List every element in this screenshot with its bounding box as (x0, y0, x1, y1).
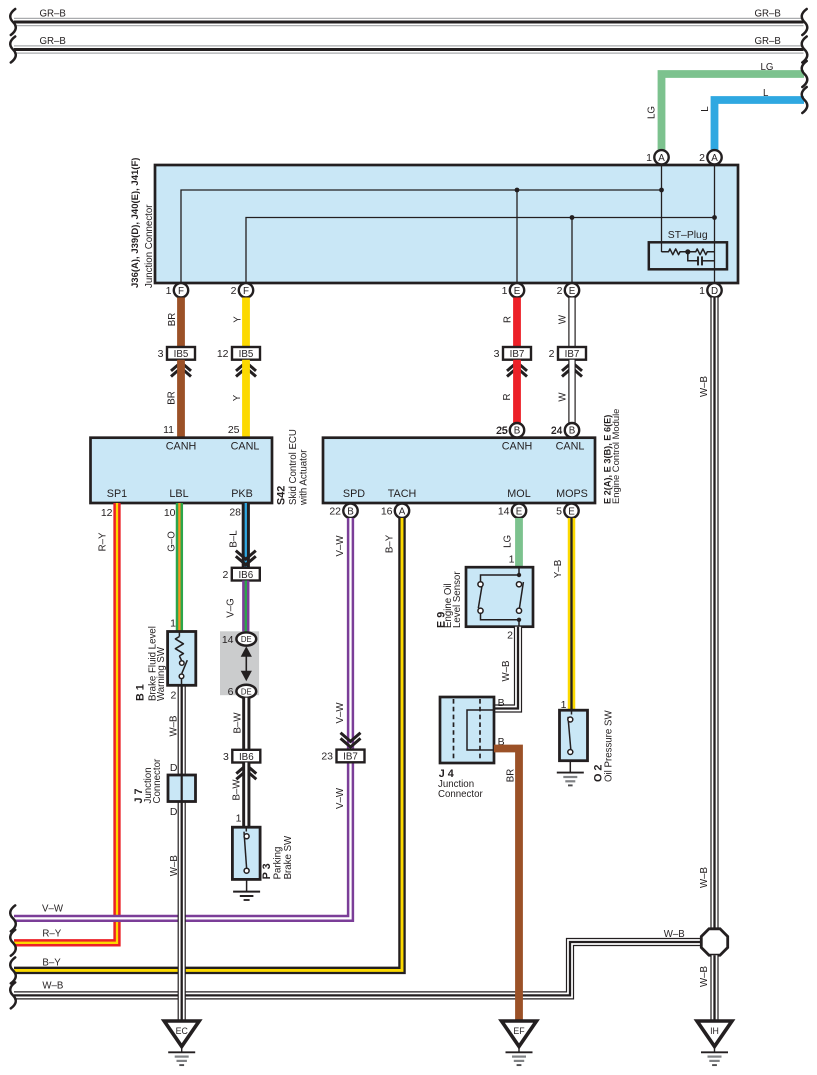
internal wire 2A down to 1D (714, 165, 716, 290)
wire V-G IB6 to DE (225, 581, 246, 633)
svg-text:3: 3 (158, 348, 164, 360)
svg-text:L: L (700, 106, 711, 112)
svg-text:1: 1 (646, 152, 652, 164)
svg-text:Y–B: Y–B (553, 560, 564, 578)
internal wire from 1F to 1A (181, 190, 662, 283)
svg-text:EC: EC (176, 1026, 189, 1036)
svg-text:Oil Pressure SW: Oil Pressure SW (604, 710, 615, 782)
break symbol GR-B lower left (10, 37, 16, 63)
wire B-W DE to IB6 (232, 698, 246, 750)
engine oil level sensor E9 box (466, 567, 533, 627)
ground IH (697, 1021, 732, 1065)
svg-text:2: 2 (170, 690, 176, 702)
P3 name label (261, 835, 294, 879)
svg-text:GR–B: GR–B (40, 36, 66, 47)
break symbol R-Y left (10, 930, 16, 956)
wire W lower segment (551, 360, 572, 437)
svg-text:W: W (558, 314, 569, 324)
J7 name label (133, 758, 163, 803)
switch O2 (568, 710, 573, 754)
ground EC (164, 1021, 199, 1065)
pin 1A (646, 150, 669, 164)
wire W-B right column upper (699, 298, 715, 930)
svg-text:IH: IH (710, 1026, 719, 1036)
J4 pin B upper (498, 697, 505, 709)
svg-text:14: 14 (498, 506, 510, 518)
svg-text:25: 25 (228, 424, 240, 436)
svg-text:F: F (243, 286, 249, 297)
svg-text:with Actuator: with Actuator (299, 449, 310, 506)
break symbol LG right (802, 61, 808, 87)
wire W-B E9 to J4 (494, 627, 518, 709)
svg-text:W–B: W–B (699, 966, 710, 987)
svg-text:2: 2 (549, 348, 555, 360)
pin 25B ECM (496, 423, 524, 437)
svg-text:1: 1 (166, 285, 172, 297)
switch B1 (170, 660, 187, 701)
wire LG (647, 62, 805, 151)
svg-text:J36(A), J39(D), J40(E), J41(F): J36(A), J39(D), J40(E), J41(F) (130, 158, 141, 288)
wire LG MOL to E9 (503, 518, 520, 567)
svg-text:CANL: CANL (231, 440, 260, 452)
svg-text:3: 3 (494, 348, 500, 360)
internal wire from 2E up (571, 218, 573, 284)
svg-text:A: A (658, 153, 665, 164)
svg-text:LG: LG (647, 106, 658, 119)
chevron under IB7 left (507, 362, 527, 376)
svg-text:24: 24 (551, 425, 563, 437)
svg-text:Parking: Parking (272, 847, 283, 880)
svg-text:IB7: IB7 (565, 349, 580, 360)
ground EF (502, 1021, 537, 1065)
connector 2 IB6 (222, 568, 259, 581)
wire R-Y SP1 to left edge (14, 503, 117, 943)
svg-text:CANH: CANH (166, 440, 197, 452)
svg-text:Y: Y (232, 316, 243, 323)
pin 16A ECM (381, 504, 409, 518)
svg-text:1: 1 (509, 554, 515, 566)
svg-text:BR: BR (167, 391, 178, 404)
svg-text:14: 14 (222, 634, 234, 646)
svg-text:B–W: B–W (232, 712, 243, 734)
svg-text:O 2: O 2 (592, 765, 604, 782)
ST-Plug box (649, 242, 727, 269)
svg-text:D: D (711, 286, 718, 297)
svg-text:IB5: IB5 (239, 349, 254, 360)
E9 right switch (516, 582, 523, 614)
svg-text:1: 1 (502, 285, 508, 297)
pin 14 DE (222, 632, 256, 645)
svg-text:10: 10 (164, 507, 176, 519)
ST-Plug label (668, 230, 708, 241)
svg-text:2: 2 (507, 630, 513, 642)
svg-text:11: 11 (163, 424, 174, 436)
wire V-W SPD to left edge (14, 518, 351, 918)
junction connector J4 box (440, 697, 494, 763)
svg-text:B–W: B–W (232, 779, 243, 801)
svg-text:B–Y: B–Y (384, 534, 395, 553)
svg-text:V–W: V–W (335, 535, 346, 557)
node octagon W-B (701, 929, 727, 955)
pin 1D (699, 283, 722, 297)
wire GR-B lower (14, 36, 804, 50)
node junction 1E-line (515, 188, 520, 193)
svg-text:G–O: G–O (167, 531, 178, 552)
arrow up DE (241, 646, 252, 668)
svg-text:B 1: B 1 (134, 684, 146, 701)
wire Y lower segment (228, 360, 246, 438)
svg-text:LBL: LBL (169, 488, 188, 500)
svg-text:A: A (711, 153, 718, 164)
wire W-B octagon to IH ground (699, 955, 715, 1021)
E9 name label (435, 571, 463, 628)
svg-text:Engine Control Module: Engine Control Module (610, 409, 621, 504)
internal wire 1A down to ST-plug (661, 165, 663, 252)
connector 3 IB5 (158, 347, 195, 360)
svg-text:A: A (399, 506, 406, 517)
svg-text:28: 28 (229, 507, 241, 519)
break symbol GR-B upper right (802, 9, 808, 35)
ground below P3 (233, 879, 260, 900)
wire BR J4 to EF ground (494, 749, 519, 1022)
svg-text:Warning SW: Warning SW (156, 646, 167, 701)
svg-text:IB5: IB5 (174, 349, 189, 360)
svg-text:B: B (514, 426, 521, 437)
svg-text:W–B: W–B (42, 981, 63, 992)
svg-text:Y: Y (232, 394, 243, 401)
svg-text:W–B: W–B (699, 867, 710, 888)
svg-text:V–W: V–W (42, 904, 64, 915)
svg-text:MOPS: MOPS (556, 488, 588, 500)
svg-text:Connector: Connector (152, 758, 163, 803)
svg-text:GR–B: GR–B (755, 9, 781, 20)
svg-text:V–W: V–W (335, 702, 346, 724)
connector 23 IB7 (321, 750, 364, 763)
svg-text:IB7: IB7 (510, 349, 525, 360)
svg-text:Junction Connector: Junction Connector (144, 204, 155, 288)
break symbol B-Y left (10, 957, 16, 983)
svg-text:Brake SW: Brake SW (283, 835, 294, 879)
svg-text:3: 3 (223, 751, 229, 763)
wire BR lower segment (163, 360, 181, 438)
break symbol L right (802, 87, 808, 113)
chevron under IB5 right (236, 362, 256, 376)
break symbol GR-B lower right (802, 37, 808, 63)
svg-text:D: D (170, 806, 178, 818)
break symbol GR-B upper left (10, 9, 16, 35)
wire W upper segment (558, 298, 572, 348)
pin 1F (166, 283, 189, 297)
svg-text:GR–B: GR–B (40, 9, 66, 20)
svg-text:W–B: W–B (699, 376, 710, 397)
chevron above IB7 23 (341, 733, 361, 747)
chevron under IB5 left (171, 362, 191, 376)
O2 name label (592, 710, 614, 782)
svg-text:SP1: SP1 (107, 488, 127, 500)
svg-text:B: B (347, 506, 354, 517)
junction connector J36/J39/J40/J41 box (130, 158, 738, 288)
svg-text:CANL: CANL (556, 440, 585, 452)
node junction 1A-line (659, 188, 664, 193)
Skid Control ECU S42 box (91, 429, 310, 506)
svg-text:W: W (557, 392, 568, 402)
wire G-O LBL to B1 (164, 503, 180, 631)
svg-text:IB7: IB7 (343, 752, 358, 763)
pin 22B ECM (329, 504, 357, 518)
svg-text:BR: BR (506, 769, 517, 782)
arrow down DE (241, 668, 252, 681)
E9 left switch (478, 582, 483, 614)
svg-text:25: 25 (496, 425, 508, 437)
resistor B1 (175, 631, 183, 661)
svg-text:DE: DE (241, 635, 252, 644)
resistor ST-plug right (689, 249, 714, 255)
svg-text:23: 23 (321, 751, 333, 763)
wire L (700, 88, 804, 151)
wire GR-B upper (14, 9, 804, 22)
svg-text:R: R (502, 394, 513, 401)
oil pressure switch O2 box (560, 710, 588, 761)
svg-text:S42: S42 (275, 486, 287, 505)
pin 1E (502, 283, 525, 297)
wire B-L PKB to IB6 (228, 503, 246, 568)
Engine Control Module box (323, 409, 621, 504)
svg-text:ST–Plug: ST–Plug (668, 230, 708, 241)
wire R lower segment (496, 360, 517, 437)
wire W-B B1 to J7 to EC ground (169, 685, 182, 1021)
resistor ST-plug left (662, 249, 688, 255)
svg-text:L: L (763, 88, 769, 99)
J4 pin B lower (498, 736, 505, 748)
svg-text:V–G: V–G (225, 598, 236, 617)
svg-text:B–Y: B–Y (42, 957, 61, 968)
svg-text:BR: BR (167, 313, 178, 326)
brake fluid level warning switch B1 box (168, 632, 196, 686)
pin 24B ECM (551, 423, 579, 437)
svg-text:SPD: SPD (343, 488, 365, 500)
svg-text:CANH: CANH (502, 440, 533, 452)
internal wire from 1E up (516, 190, 518, 283)
pin 2E (557, 283, 580, 297)
svg-text:E: E (568, 506, 575, 517)
E9 internal wiring bottom (481, 613, 522, 626)
svg-text:Connector: Connector (438, 789, 483, 800)
svg-text:Skid Control ECU: Skid Control ECU (288, 429, 299, 505)
svg-text:22: 22 (329, 506, 341, 518)
svg-text:2: 2 (557, 285, 563, 297)
svg-text:IB6: IB6 (238, 570, 253, 581)
svg-text:2: 2 (699, 152, 705, 164)
svg-text:MOL: MOL (507, 488, 530, 500)
gray connector block DE (220, 631, 259, 695)
svg-text:W–B: W–B (169, 716, 180, 737)
internal wire from 2F to 2A (246, 218, 715, 284)
svg-text:IB6: IB6 (239, 752, 254, 763)
wire Y-B MOPS to O2 (553, 518, 572, 711)
svg-text:R–Y: R–Y (98, 532, 109, 551)
svg-text:W–B: W–B (664, 929, 685, 940)
break symbol V-W left (10, 905, 16, 931)
svg-text:6: 6 (228, 686, 234, 698)
J4 dashed line left (453, 699, 455, 761)
J4 dashed line right (479, 699, 481, 761)
svg-text:LG: LG (503, 535, 514, 548)
svg-text:2: 2 (231, 285, 237, 297)
svg-text:16: 16 (381, 506, 393, 518)
svg-text:1: 1 (699, 285, 705, 297)
wire Y upper segment (232, 298, 246, 348)
J4 inner rectangle (467, 710, 494, 750)
svg-text:LG: LG (761, 62, 774, 73)
chevron under IB7 right (562, 362, 582, 376)
svg-text:V–W: V–W (335, 787, 346, 809)
svg-text:TACH: TACH (388, 488, 417, 500)
break symbol W-B left (10, 982, 16, 1008)
svg-text:W–B: W–B (501, 661, 512, 682)
svg-text:W–B: W–B (169, 855, 180, 876)
wire BR upper segment (167, 298, 181, 348)
svg-text:PKB: PKB (231, 488, 253, 500)
svg-text:E: E (569, 286, 576, 297)
pin 2A (699, 150, 722, 164)
node junction 2A-line (712, 215, 717, 220)
svg-text:5: 5 (556, 506, 562, 518)
svg-text:GR–B: GR–B (755, 36, 781, 47)
connector 12 IB5 (217, 347, 260, 360)
connector 2 IB7 (549, 347, 586, 360)
svg-text:D: D (170, 762, 178, 774)
B1 name label (134, 626, 167, 701)
svg-text:F: F (178, 286, 184, 297)
svg-text:P 3: P 3 (261, 863, 273, 879)
chevron above IB6 2 (236, 551, 256, 565)
svg-text:B: B (498, 697, 505, 709)
E9 internal wiring top (481, 567, 522, 581)
svg-text:E: E (516, 506, 523, 517)
pin 5E ECM (556, 504, 579, 518)
node junction 2E-line (570, 215, 575, 220)
wire W-B octagon branch to left edge (14, 929, 702, 995)
connector 3 IB7 (494, 347, 531, 360)
svg-text:1: 1 (236, 813, 242, 825)
wire R upper segment (502, 298, 517, 348)
svg-text:R: R (502, 316, 513, 323)
pin 2F (231, 283, 254, 297)
svg-text:EF: EF (513, 1026, 525, 1036)
capacitor ST-plug (688, 252, 715, 266)
svg-text:B: B (569, 426, 576, 437)
svg-text:R–Y: R–Y (42, 929, 61, 940)
switch P3 (244, 827, 249, 873)
svg-text:Level Sensor: Level Sensor (452, 571, 463, 628)
pin 14E ECM (498, 504, 526, 518)
J4 name label (438, 768, 483, 800)
svg-text:B–L: B–L (228, 530, 239, 548)
svg-text:DE: DE (241, 687, 252, 696)
svg-text:1: 1 (170, 618, 176, 630)
svg-text:12: 12 (101, 507, 113, 519)
pin 6 DE (228, 685, 257, 698)
node resistor midpoint (685, 249, 690, 254)
svg-text:E: E (514, 286, 521, 297)
junction connector J7 box (168, 762, 196, 818)
wire B-W IB6 to P3 (232, 763, 247, 828)
parking brake switch P3 box (232, 827, 260, 879)
svg-text:2: 2 (222, 569, 228, 581)
connector 3 IB6 (223, 750, 260, 763)
svg-text:12: 12 (217, 348, 229, 360)
ground below O2 (557, 761, 584, 786)
chevron under IB6 3 (236, 765, 256, 779)
wire B-Y TACH to left edge (14, 518, 402, 970)
